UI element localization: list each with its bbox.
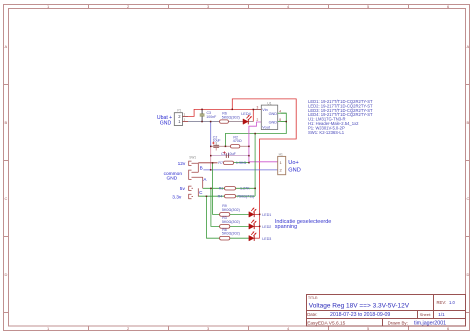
svg-text:D: D (5, 272, 8, 277)
wire Ubat+ from P1 pin2 to U1 Vin (net Ubat+) (188, 109, 253, 116)
junction R1 row on ADJ vertical (254, 188, 256, 190)
junction Vout column on C1 row (248, 155, 250, 157)
wire ADJ green vertical from under U1 to R1/R4 rows (254, 134, 256, 197)
svg-text:12v: 12v (178, 161, 186, 167)
wire Ubat+ branch: riser, top run, right leg down to LED cathode column (232, 99, 296, 238)
resistor R8 (220, 228, 240, 240)
wire GND row from P1 pin1 to R6 (188, 121, 220, 123)
resistor R6 (220, 112, 240, 124)
svg-text:B: B (467, 120, 470, 125)
wire 5v drop to LED2 row (211, 188, 249, 226)
svg-text:3.3v: 3.3v (172, 194, 182, 200)
header H1 (278, 152, 286, 174)
svg-text:SW1: K2-1236S-L1: SW1: K2-1236S-L1 (308, 130, 345, 135)
svg-text:750Ω(711): 750Ω(711) (237, 194, 254, 198)
svg-text:R4: R4 (218, 194, 223, 198)
wire GND vertical continuation down to GND row (210, 146, 212, 170)
svg-text:1/1: 1/1 (438, 312, 445, 317)
svg-text:GND: GND (160, 120, 172, 126)
junction LED4 riser on Ubat+ rail (253, 109, 255, 111)
capacitor C2 10uF (212, 135, 220, 150)
svg-text:Sheet:: Sheet: (420, 312, 431, 317)
junction GND drop on GND row (210, 121, 212, 123)
svg-text:1.0: 1.0 (449, 300, 455, 305)
svg-text:GND: GND (269, 112, 278, 116)
svg-text:LED2: LED2 (262, 225, 271, 229)
svg-text:B: B (200, 165, 203, 170)
junction 3.3v drop on 3.3v row (206, 196, 208, 198)
svg-text:U1: U1 (267, 102, 271, 106)
svg-text:2018-07-23 to 2018-09-09: 2018-07-23 to 2018-09-09 (330, 312, 390, 318)
wire GND vertical from P1 row down to bus row (210, 122, 212, 147)
junction riser on Ubat+ rail (232, 109, 234, 111)
resistor R3 (220, 216, 240, 228)
wire U1 GND/ADJ green path down and left to bus row (225, 113, 286, 146)
connector P1 (174, 108, 188, 125)
wire LED3 cathode stub (254, 237, 260, 239)
svg-text:P1: P1 (177, 108, 181, 112)
LED1 (249, 208, 271, 217)
junction C3 bottom on GND row (201, 121, 203, 123)
resistor R7 1.9K (218, 161, 246, 165)
svg-text:2: 2 (257, 118, 259, 122)
wire 12v row from SW1 to R7 (198, 162, 217, 164)
wire R7 to Vout column (234, 162, 249, 164)
svg-text:5K0Ω(302): 5K0Ω(302) (222, 220, 240, 224)
junction GND vertical on GND row (210, 169, 212, 171)
junction green leg on bus row (225, 146, 227, 148)
svg-text:Vout: Vout (262, 125, 271, 129)
capacitor C1 10uF (221, 151, 237, 158)
svg-text:GND: GND (167, 176, 178, 182)
svg-text:B: B (5, 120, 8, 125)
junction C3 top on Ubat+ rail (201, 109, 203, 111)
svg-text:Drawn By:: Drawn By: (388, 320, 408, 325)
wire 3.3v drop to LED3 row (207, 196, 249, 238)
svg-text:100nF: 100nF (206, 115, 216, 119)
svg-text:SW1: SW1 (189, 156, 196, 160)
svg-text:LED1: LED1 (262, 213, 271, 217)
svg-text:4: 4 (279, 109, 281, 113)
svg-text:LED3: LED3 (262, 237, 271, 241)
svg-text:R1: R1 (219, 187, 224, 191)
wire LED1 cathode stub (254, 213, 260, 215)
svg-text:H1: H1 (279, 152, 283, 156)
svg-text:GND: GND (288, 168, 300, 174)
svg-text:Vin: Vin (262, 108, 267, 112)
junction Vout column on bus row (248, 146, 250, 148)
svg-text:D: D (467, 272, 470, 277)
resistor R2 470 (231, 136, 242, 149)
wire 12v drop to LED1 row (213, 163, 249, 215)
svg-text:5K0Ω(302): 5K0Ω(302) (222, 115, 240, 119)
svg-text:spanning: spanning (275, 224, 297, 230)
junction GND vertical on bus row (210, 146, 212, 148)
wire riser from LED4 cathode row up to Ubat+ rail (252, 109, 254, 121)
wire GND row to H1 pin2 (203, 169, 277, 171)
svg-text:tim.jager2001: tim.jager2001 (414, 320, 446, 326)
svg-text:REV:: REV: (437, 300, 447, 305)
svg-text:5v: 5v (180, 186, 186, 192)
rotary switch SW1 (189, 161, 203, 199)
svg-text:5K0Ω(302): 5K0Ω(302) (222, 208, 240, 212)
svg-text:470Ω: 470Ω (233, 139, 242, 143)
svg-text:1.27K: 1.27K (240, 187, 250, 191)
wire LED2 cathode stub (254, 225, 260, 227)
svg-text:C1: 10uF: C1: 10uF (221, 152, 237, 156)
regulator U1 LM317 (253, 102, 286, 130)
junction 5v drop on 5v row (210, 188, 212, 190)
wire ADJ bus row with C2 and R2 (211, 145, 249, 147)
resistor R4 750 (218, 194, 255, 198)
wire R6 to LED4 and LED4 cathode to riser (228, 121, 253, 123)
svg-text:10uF: 10uF (213, 139, 221, 143)
svg-text:GND: GND (269, 120, 278, 124)
junction LED2 on cathode column (259, 226, 261, 228)
svg-text:A: A (5, 44, 8, 49)
junction 12v drop on 12v row (212, 162, 214, 164)
wire Vout magenta net from U1 pin2 down to H1 pin1 (249, 122, 278, 162)
resistor R9 (220, 204, 240, 216)
svg-text:5K0Ω(302): 5K0Ω(302) (222, 232, 240, 236)
wire C1 row (211, 155, 249, 157)
svg-text:TITLE:: TITLE: (308, 296, 318, 300)
svg-text:C: C (5, 196, 8, 201)
junction LED1 on cathode column (259, 214, 261, 216)
svg-text:C: C (467, 196, 470, 201)
svg-text:3: 3 (257, 106, 259, 110)
capacitor C3 100nF (200, 109, 217, 121)
svg-text:EasyEDA V5.6.15: EasyEDA V5.6.15 (307, 320, 345, 326)
junction U1 GND pins (286, 121, 288, 123)
svg-text:A: A (467, 44, 470, 49)
LED3 (249, 232, 271, 241)
junction ADJ vertical on green run (254, 133, 256, 135)
wire 3.3v row through R4 (198, 195, 255, 197)
resistor R1 1.27K (219, 187, 250, 191)
svg-text:1.9KΩ: 1.9KΩ (236, 161, 247, 165)
junction R7 to Vout column (248, 162, 250, 164)
wire 5v row through R1 (203, 187, 255, 189)
svg-text:Voltage Reg 18V ==> 3.3V-5V-12: Voltage Reg 18V ==> 3.3V-5V-12V (309, 302, 410, 309)
svg-text:8: 8 (279, 118, 281, 122)
svg-text:R7: R7 (218, 161, 223, 165)
svg-text:LED4: LED4 (241, 112, 251, 116)
LED4 (241, 112, 251, 124)
LED2 (249, 220, 271, 229)
junction GND vertical on C1 row (210, 155, 212, 157)
svg-text:Date:: Date: (307, 312, 317, 317)
svg-text:Uo+: Uo+ (288, 160, 298, 166)
